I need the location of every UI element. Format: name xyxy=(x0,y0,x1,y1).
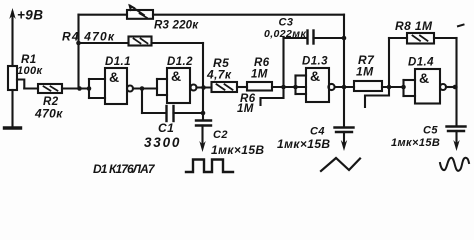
square wave symbol xyxy=(186,160,233,173)
node: D1.1 input tie xyxy=(87,86,92,91)
node D1.4 out xyxy=(453,85,458,90)
svg-text:+9В: +9В xyxy=(17,8,43,23)
svg-text:&: & xyxy=(419,70,430,86)
svg-text:C2: C2 xyxy=(213,129,228,141)
svg-text:D1.3: D1.3 xyxy=(302,56,328,68)
resistor R4 xyxy=(129,37,152,46)
svg-text:0,022мк: 0,022мк xyxy=(264,28,306,40)
node C3 right xyxy=(342,36,347,41)
svg-text:C3: C3 xyxy=(279,17,294,29)
resistor R7 xyxy=(354,81,382,91)
svg-text:D1 К176ЛА7: D1 К176ЛА7 xyxy=(93,162,156,176)
node D1.4 tie xyxy=(401,85,406,90)
svg-text:R4 470к: R4 470к xyxy=(62,30,115,44)
capacitor C4 xyxy=(343,87,345,127)
resistor R8 xyxy=(388,38,390,87)
svg-text:&: & xyxy=(109,69,120,85)
svg-text:D1.1: D1.1 xyxy=(105,56,131,68)
gate D1.1 xyxy=(105,68,127,104)
wire R4 rail xyxy=(79,42,129,44)
wire D1.4 out xyxy=(446,86,457,88)
gate D1.3 xyxy=(306,68,329,102)
wire R5-R6 xyxy=(237,86,247,88)
wire D1.1 out xyxy=(133,87,157,89)
op-amp D1.1 input tie xyxy=(88,79,90,98)
gate D1.2 xyxy=(167,68,190,103)
wire R7 to D1.4 xyxy=(382,86,404,88)
resistor R6 xyxy=(247,82,272,91)
gate D1.4 input tie xyxy=(402,80,404,96)
svg-text:R8 1М: R8 1М xyxy=(395,19,433,33)
svg-text:&: & xyxy=(310,68,321,84)
node R7 right xyxy=(387,85,392,90)
node C1 right xyxy=(201,111,206,116)
triangle wave symbol xyxy=(321,158,360,171)
svg-text:D1.2: D1.2 xyxy=(167,56,193,68)
wire top rail right xyxy=(153,14,344,16)
resistor R2 xyxy=(38,84,62,93)
wire down to D1.3 output xyxy=(343,15,345,87)
node D1.3 tie xyxy=(293,85,298,90)
svg-text:1М: 1М xyxy=(237,103,254,115)
resistor R3 (trimmer) xyxy=(127,10,153,19)
node D1.2 out xyxy=(201,85,206,90)
wire D1.3 out xyxy=(336,86,355,88)
capacitor C3 xyxy=(282,38,284,87)
svg-text:3300: 3300 xyxy=(144,135,181,150)
node D1.3 out xyxy=(342,85,347,90)
svg-text:D1.4: D1.4 xyxy=(408,57,434,69)
sine wave symbol xyxy=(440,158,469,171)
node D1.1 out xyxy=(140,86,145,91)
wire R6 lower hook xyxy=(261,87,284,105)
gate D1.4 xyxy=(415,69,440,104)
node R6 right xyxy=(281,85,286,90)
svg-text:470к: 470к xyxy=(34,107,63,121)
wire D1.2 out xyxy=(197,86,212,88)
wire R7 lower hook xyxy=(365,87,389,107)
wire top rail left xyxy=(79,14,128,16)
resistor R1 (potentiometer) xyxy=(8,66,17,90)
node R4 tap xyxy=(76,41,81,46)
svg-text:C4: C4 xyxy=(310,126,325,138)
wire R6 to D1.3 xyxy=(272,86,306,88)
R1 wiper xyxy=(17,80,24,89)
svg-text:C5: C5 xyxy=(423,125,438,137)
svg-text:4,7к: 4,7к xyxy=(206,68,232,82)
wire R1 bottom to ground xyxy=(11,90,13,127)
wire vertical feedback line xyxy=(77,15,79,89)
gate D1.2 input tie xyxy=(156,79,158,95)
resistor R5 xyxy=(212,82,238,92)
gate D1.3 input tie xyxy=(294,76,296,95)
wire down to D1.2 output xyxy=(202,43,204,88)
capacitor C2 xyxy=(202,88,204,121)
minus mark top right xyxy=(458,25,464,27)
svg-text:C1: C1 xyxy=(158,121,174,135)
+9V supply arrow xyxy=(11,12,13,66)
svg-text:1мк×15В: 1мк×15В xyxy=(391,137,440,149)
node: feedback junction xyxy=(77,86,82,91)
svg-text:1мк×15В: 1мк×15В xyxy=(211,143,264,157)
capacitor C1 xyxy=(141,89,143,114)
wire R2 to D1.1 input xyxy=(62,87,89,89)
svg-text:R3 220к: R3 220к xyxy=(154,20,199,32)
svg-text:1М: 1М xyxy=(356,65,374,79)
svg-text:1М: 1М xyxy=(251,69,268,81)
svg-text:&: & xyxy=(171,68,182,84)
svg-text:1мк×15В: 1мк×15В xyxy=(277,137,330,151)
capacitor C5 xyxy=(455,87,457,126)
svg-text:100к: 100к xyxy=(17,65,44,77)
ground xyxy=(5,126,21,129)
svg-text:R6: R6 xyxy=(254,57,270,69)
